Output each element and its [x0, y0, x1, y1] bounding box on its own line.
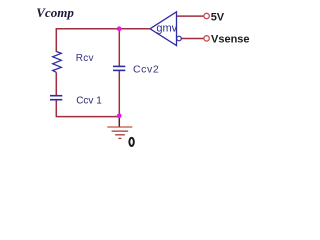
capacitor Ccv1 [50, 96, 62, 100]
node junction dot bottom [117, 113, 122, 118]
wire Ccv2 branch lower [118, 70, 120, 116]
ground [107, 127, 132, 138]
wire top horizontal Vcomp node [56, 28, 150, 30]
wire bottom horizontal [56, 116, 119, 118]
node junction dot top [117, 26, 122, 31]
capacitor Ccv2 [113, 66, 125, 70]
wire left vertical top [55, 29, 57, 52]
op-amp gmv transconductance amplifier [150, 12, 177, 46]
wire Ccv1 to bottom [55, 100, 57, 117]
svg-text:Vcomp: Vcomp [36, 5, 74, 20]
resistor Rcv [53, 52, 62, 73]
wire Vsense input [182, 38, 205, 40]
svg-text:gmv: gmv [156, 23, 177, 35]
wire Ccv2 branch upper [118, 29, 120, 67]
wire 5V input [177, 15, 205, 17]
svg-text:Rcv: Rcv [76, 53, 94, 64]
ground 0 label [129, 138, 134, 146]
op-amp inverting input bubble [177, 36, 182, 41]
port Vsense [204, 36, 209, 41]
wire to ground [118, 117, 120, 127]
port 5V [204, 13, 209, 18]
svg-text:Vsense: Vsense [211, 33, 250, 45]
wire resistor to Ccv1 [55, 72, 57, 96]
svg-text:Ccv2: Ccv2 [133, 63, 159, 75]
svg-text:5V: 5V [211, 11, 225, 23]
svg-text:Ccv 1: Ccv 1 [76, 96, 102, 107]
